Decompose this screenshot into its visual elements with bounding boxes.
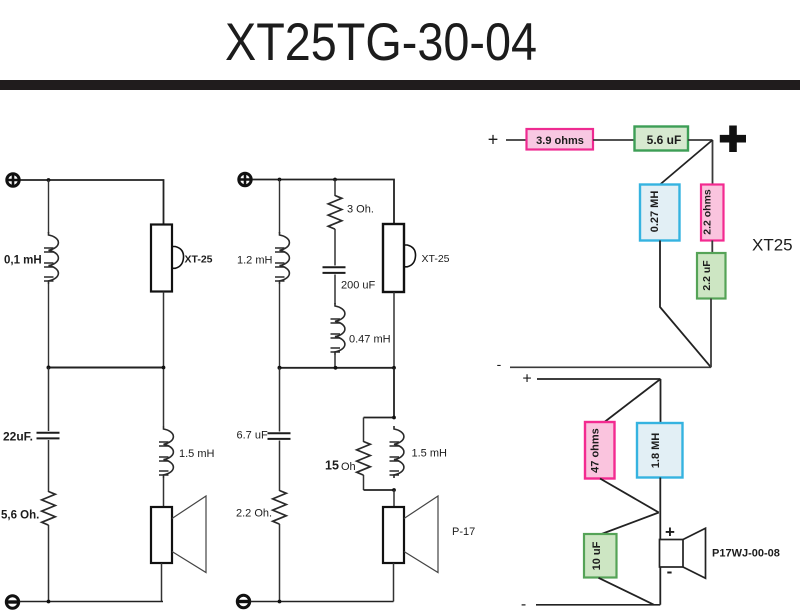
inductor 1.5 mH coil (left schematic) (159, 426, 173, 478)
svg-text:1.2 mH: 1.2 mH (237, 255, 273, 267)
wire 2.2ohms to 2.2uF (711, 241, 713, 254)
svg-text:2.2 Oh.: 2.2 Oh. (236, 508, 272, 520)
wire junction diag to 10uF (602, 513, 659, 535)
capacitor box 5.6 uF (635, 127, 689, 151)
inductor 1.2 mH coil (275, 232, 289, 284)
wire top rail left (21, 180, 164, 225)
wire left branch upper (48, 180, 50, 233)
svg-text:-: - (497, 356, 502, 372)
resistor 5,6 Oh zigzag (42, 492, 56, 526)
terminal minus (middle schematic) (237, 595, 249, 607)
inductor 0,1 mH coil (44, 232, 58, 284)
wire top rail middle (253, 180, 395, 225)
wire left branch to capacitor (48, 368, 50, 432)
svg-text:-: - (667, 562, 673, 581)
wire left lower branch to 6.7uF (279, 368, 281, 432)
inductor box 1.8 MH (637, 423, 683, 478)
capacitor 6.7 uF plates (268, 433, 291, 439)
terminal plus (middle schematic) (239, 173, 251, 185)
svg-text:1.5 mH: 1.5 mH (412, 448, 448, 460)
woofer rectangle (middle schematic) (383, 507, 404, 563)
wire combo top (364, 417, 395, 419)
node mid junction 1 (middle) (278, 366, 282, 370)
capacitor box 10 uF (584, 534, 617, 578)
node mid-right junction (162, 366, 166, 370)
resistor 15 Oh zigzag (357, 442, 371, 476)
wire woofer bottom rail (536, 604, 660, 606)
wire diagonal to 47 ohms (603, 379, 661, 424)
node mid-left junction (47, 366, 51, 370)
woofer cone (middle schematic) (404, 496, 438, 573)
tweeter XT-25 rectangle (left schematic) (151, 225, 184, 292)
wire mid rail (middle schematic) (280, 367, 395, 369)
wire 5.6uF to corner node (688, 139, 713, 141)
wire combo left upper (363, 418, 365, 443)
svg-text:XT25TG-30-04: XT25TG-30-04 (225, 13, 537, 72)
svg-text:2.2 uF: 2.2 uF (701, 260, 713, 291)
woofer rectangle (left schematic) (151, 507, 172, 563)
wire capacitor to resistor (48, 440, 50, 492)
svg-text:-: - (521, 596, 526, 613)
svg-text:0,1 mH: 0,1 mH (4, 255, 42, 267)
node top-left junction (47, 178, 51, 182)
node bottom junction (left schematic) (47, 600, 51, 604)
wire resistor to bottom rail (48, 525, 50, 602)
wire corner diagonal to 0.27MH (660, 140, 713, 185)
svg-text:0.27 MH: 0.27 MH (649, 191, 661, 233)
resistor 2.2 Oh zigzag (273, 491, 287, 525)
label big plus terminal (720, 126, 746, 153)
svg-text:15: 15 (325, 459, 339, 473)
capacitor 22uF plates (37, 433, 60, 439)
svg-text:Oh: Oh (341, 461, 356, 473)
wire 3.9ohms to 5.6uF (593, 139, 634, 141)
node combo bottom junction (392, 488, 396, 492)
wire mid rail (left schematic) (49, 367, 164, 369)
wire corner to 2.2 ohms (712, 140, 714, 184)
svg-text:XT25: XT25 (752, 236, 793, 255)
capacitor box 2.2 uF (697, 253, 726, 299)
svg-text:5,6 Oh.: 5,6 Oh. (1, 510, 39, 522)
wire branch1 lower (279, 284, 281, 368)
resistor box 47 ohms (585, 422, 615, 479)
wire bottom rail (middle schematic) (251, 601, 394, 603)
resistor box 2.2 ohms (701, 185, 724, 241)
inductor 0.47 mH coil (331, 303, 345, 355)
resistor 3 Oh zigzag (328, 196, 342, 230)
svg-text:3 Oh.: 3 Oh. (347, 204, 374, 216)
svg-text:10 uF: 10 uF (591, 541, 603, 570)
wire bottom rail (left schematic) (20, 601, 164, 603)
wire right branch below tweeter (163, 292, 165, 427)
tweeter XT-25 rectangle (middle schematic) (383, 224, 416, 292)
wire combo left lower (363, 475, 365, 490)
svg-text:+: + (522, 371, 531, 388)
wire tweeter bottom rail (510, 366, 711, 368)
wire 2.2Oh to bottom rail (279, 524, 281, 602)
wire 0.47mH to mid rail (334, 355, 336, 368)
wire coil to woofer (163, 478, 165, 507)
wire woofer top rail (537, 378, 661, 380)
wire branch2 upper stub (334, 180, 336, 197)
svg-text:XT-25: XT-25 (422, 253, 450, 265)
title rule bar (0, 80, 800, 90)
wire top rail to 1.8MH (660, 379, 662, 423)
svg-text:0.47 mH: 0.47 mH (349, 334, 391, 346)
node mid junction 3 (middle) (392, 366, 396, 370)
svg-text:1.8 MH: 1.8 MH (650, 433, 662, 469)
inductor 1.5 mH coil (middle schematic) (390, 426, 404, 478)
woofer cone (left schematic) (172, 496, 206, 573)
node top junction 1 (middle) (278, 178, 282, 182)
wire 200uF to 0.47mH (334, 275, 336, 305)
wire input to 3.9 ohms (506, 139, 526, 141)
speaker P17 rectangle (660, 540, 684, 568)
node combo top junction (392, 416, 396, 420)
resistor box 3.9 ohms (527, 129, 594, 150)
svg-text:22uF.: 22uF. (3, 430, 33, 444)
svg-text:3.9 ohms: 3.9 ohms (536, 135, 584, 147)
wire combo bottom (364, 489, 395, 491)
wire combo to woofer (393, 490, 395, 507)
wire 6.7uF to 2.2Oh (279, 441, 281, 492)
svg-text:200 uF: 200 uF (341, 280, 376, 292)
wire 1.8MH down through junction to bottom (659, 478, 661, 605)
svg-text:6.7 uF: 6.7 uF (237, 430, 268, 442)
speaker P17 cone (683, 528, 706, 578)
wire resistor to 200uF (334, 229, 336, 266)
svg-text:XT-25: XT-25 (185, 254, 213, 266)
wire 0.27MH down (660, 241, 711, 368)
node mid junction 2 (middle) (334, 366, 338, 370)
svg-text:1.5 mH: 1.5 mH (179, 448, 215, 460)
wire left branch below coil (48, 284, 50, 368)
svg-text:5.6 uF: 5.6 uF (647, 133, 682, 147)
svg-text:P17WJ-00-08: P17WJ-00-08 (712, 548, 780, 560)
svg-text:2.2 ohms: 2.2 ohms (702, 189, 714, 235)
wire branch1 upper (279, 180, 281, 234)
wire 47ohms diag to junction (600, 479, 659, 513)
svg-text:P-17: P-17 (452, 526, 475, 538)
node top junction 2 (middle) (333, 178, 337, 182)
svg-text:+: + (488, 130, 499, 150)
wire tweeter to mid rail (middle) (393, 292, 395, 368)
wire woofer to bottom rail (middle) (393, 563, 395, 602)
node bottom junction (middle) (278, 600, 282, 604)
terminal minus (left schematic) (6, 596, 18, 608)
wire 2.2uF down (710, 299, 712, 368)
wire right lower to parallel combo (393, 368, 395, 418)
capacitor 200 uF plates (323, 267, 346, 273)
wire woofer to bottom rail (161, 563, 163, 602)
svg-text:47 ohms: 47 ohms (590, 428, 602, 473)
terminal plus (left schematic) (7, 174, 19, 186)
wire 10uF diag to bottom rail (599, 578, 655, 605)
inductor box 0.27 MH (640, 185, 680, 241)
